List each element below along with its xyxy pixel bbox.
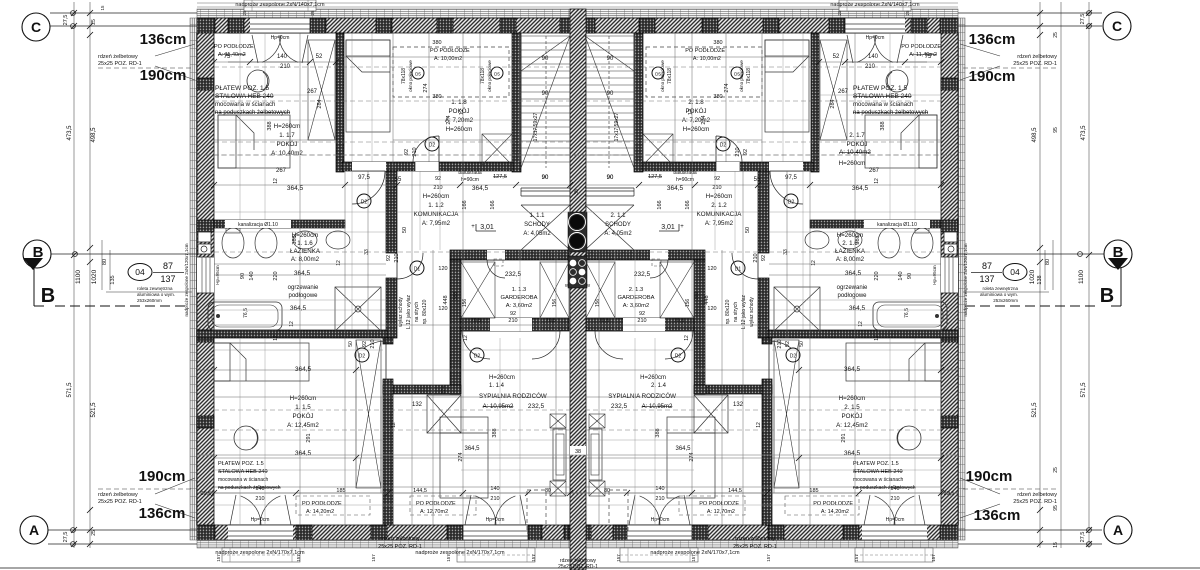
window bottom opening: [463, 525, 528, 540]
svg-text:1. 1.4: 1. 1.4: [489, 383, 505, 389]
section mark B left: [23, 240, 51, 268]
stair void cross left: [521, 205, 570, 250]
svg-text:ogrzewanie: ogrzewanie: [837, 285, 868, 291]
bed bottom-left room: [214, 343, 309, 381]
svg-text:70,5: 70,5: [471, 318, 482, 324]
svg-text:90: 90: [607, 175, 614, 181]
svg-text:364,5: 364,5: [845, 270, 862, 277]
wall H below top rooms (right): [642, 162, 813, 171]
stairs left flight treads: [521, 36, 570, 168]
svg-text:92: 92: [362, 341, 368, 347]
svg-text:55: 55: [395, 177, 402, 183]
svg-text:80: 80: [102, 259, 108, 265]
dashed box PO PODLODZE bottom-left: [296, 496, 370, 515]
svg-text:3,01: 3,01: [480, 224, 494, 231]
svg-text:D2: D2: [720, 143, 727, 149]
svg-text:PŁATEW POZ. 1.5: PŁATEW POZ. 1.5: [215, 85, 269, 92]
svg-text:na strych: na strych: [733, 302, 739, 323]
wall H garderoba top: [450, 250, 569, 260]
svg-text:PO PODŁODZE: PO PODŁODZE: [901, 44, 941, 50]
wall H bathroom bottom (right): [768, 330, 958, 338]
svg-text:157: 157: [691, 554, 696, 562]
svg-text:166: 166: [685, 200, 691, 209]
extra light guide lines vertical: [239, 33, 241, 220]
svg-text:38: 38: [575, 449, 581, 455]
svg-text:274: 274: [423, 83, 429, 92]
svg-text:157: 157: [854, 554, 859, 562]
svg-text:70,5: 70,5: [674, 318, 685, 324]
pipe boxes on right wall bathroom: [944, 232, 957, 242]
svg-text:12: 12: [688, 109, 694, 115]
window top-right opening: [845, 18, 905, 33]
svg-text:92: 92: [404, 149, 410, 155]
column in left wall: [197, 416, 214, 428]
svg-text:A: 3,60m2: A: 3,60m2: [506, 303, 532, 309]
central party wall: [570, 9, 586, 570]
svg-text:aluminiowa o wym.: aluminiowa o wym.: [137, 292, 175, 297]
svg-text:D2: D2: [429, 143, 436, 149]
svg-text:75: 75: [925, 54, 932, 60]
toilet right bathroom: [911, 228, 933, 258]
svg-text:521,5: 521,5: [1032, 402, 1038, 418]
svg-text:210: 210: [637, 318, 646, 324]
stair void cross right: [585, 205, 634, 250]
wall V komunikacja/lazienka lower: [386, 278, 397, 338]
bathtub right: [873, 302, 947, 330]
svg-text:364,5: 364,5: [849, 305, 866, 312]
door arc sypialnia left b: [532, 331, 560, 359]
svg-text:ŁAZIENKA: ŁAZIENKA: [290, 248, 321, 255]
svg-text:127,5: 127,5: [648, 174, 662, 180]
svg-text:rdzeń żelbetowy: rdzeń żelbetowy: [735, 536, 775, 542]
svg-text:274: 274: [441, 386, 447, 395]
svg-text:A: 3,60m2: A: 3,60m2: [623, 303, 649, 309]
door gap garderoba: [487, 250, 505, 260]
svg-text:364,5: 364,5: [852, 185, 869, 192]
svg-text:190cm: 190cm: [139, 468, 186, 485]
svg-text:SCHODY: SCHODY: [524, 222, 550, 228]
svg-text:78x118: 78x118: [746, 68, 752, 84]
svg-text:12: 12: [336, 260, 342, 266]
svg-text:rdzeń żelbetowy: rdzeń żelbetowy: [98, 54, 138, 60]
svg-text:1020: 1020: [91, 269, 98, 284]
svg-text:220: 220: [273, 271, 279, 280]
svg-text:2. 1.8: 2. 1.8: [688, 99, 704, 106]
vent circles cluster: [570, 260, 577, 267]
svg-text:210: 210: [508, 318, 517, 324]
door D2 circle komunikacja left: [357, 194, 371, 208]
svg-text:Hp=0cm: Hp=0cm: [251, 517, 270, 523]
svg-text:87: 87: [163, 261, 173, 271]
chimney flue black circles: [570, 215, 584, 229]
svg-text:90: 90: [607, 56, 614, 62]
svg-text:364,5: 364,5: [675, 446, 691, 452]
svg-text:120: 120: [438, 266, 447, 272]
svg-text:12: 12: [289, 321, 295, 327]
svg-text:190cm: 190cm: [969, 68, 1016, 85]
heating detail circle left: [234, 426, 258, 450]
grid bubble C left: [22, 13, 50, 41]
wardrobe closet top-left: [308, 40, 335, 140]
svg-text:podłogowe: podłogowe: [837, 293, 867, 299]
svg-text:232,5: 232,5: [611, 403, 628, 410]
column in bottom wall (right): [692, 525, 708, 540]
svg-text:132: 132: [733, 402, 744, 408]
bed bottom-left room (right): [846, 343, 941, 381]
svg-text:140: 140: [868, 54, 879, 60]
svg-text:PO PODŁODZE: PO PODŁODZE: [813, 501, 853, 507]
door gap garderoba-sypialnia: [490, 318, 532, 331]
svg-text:15: 15: [100, 5, 105, 11]
svg-text:380: 380: [432, 94, 441, 100]
svg-text:h=90cm: h=90cm: [676, 177, 694, 183]
svg-text:138: 138: [1037, 275, 1043, 284]
column in right wall: [941, 78, 958, 90]
svg-text:nadproże zespolone 2xN/120x7,1: nadproże zespolone 2xN/120x7,1cm: [963, 243, 968, 316]
window arcs bottom right half: [640, 496, 660, 525]
section mark B right: [1104, 240, 1132, 268]
svg-text:C: C: [1112, 18, 1122, 34]
wall V garderoba-sypialnia left: [450, 260, 461, 394]
svg-text:50: 50: [402, 227, 408, 233]
pipe boxes on left wall bathroom: [198, 232, 211, 242]
svg-text:210: 210: [712, 185, 721, 191]
window bottom opening: [228, 525, 293, 540]
column in bottom wall: [564, 525, 586, 540]
svg-text:PO PODŁODZE: PO PODŁODZE: [416, 501, 456, 507]
wall H niche bottom (right): [694, 385, 772, 394]
svg-text:364,5: 364,5: [290, 305, 307, 312]
svg-text:90: 90: [542, 175, 549, 181]
wall V niche left stub: [383, 338, 393, 344]
svg-text:120: 120: [438, 306, 447, 312]
svg-text:A: 4,05m2: A: 4,05m2: [604, 231, 632, 237]
svg-text:157: 157: [931, 554, 936, 562]
svg-text:12: 12: [811, 260, 817, 266]
column in top wall: [500, 18, 516, 33]
svg-text:132: 132: [412, 402, 423, 408]
svg-text:25: 25: [1053, 467, 1059, 473]
heating circle top-right room: [886, 70, 908, 92]
svg-text:balustrada: balustrada: [673, 170, 697, 176]
door arc pokoj115 right: [769, 341, 791, 348]
svg-text:H=260cm: H=260cm: [640, 375, 666, 381]
window top-left opening: [250, 18, 310, 33]
svg-text:210: 210: [433, 185, 442, 191]
svg-text:1. 1.3: 1. 1.3: [512, 287, 527, 293]
svg-text:92: 92: [785, 341, 791, 347]
svg-text:274: 274: [706, 386, 712, 395]
svg-text:A: A: [1113, 522, 1123, 538]
svg-text:na poduszkach żelbetowych: na poduszkach żelbetowych: [853, 485, 916, 491]
wall V komunikacja/lazienka: [386, 171, 397, 253]
door D1 circle closet right: [731, 261, 745, 275]
svg-text:364,5: 364,5: [844, 450, 861, 457]
svg-text:95: 95: [1053, 127, 1059, 133]
svg-text:15: 15: [1053, 542, 1059, 548]
svg-text:364,5: 364,5: [287, 185, 304, 192]
roller shutter box bottom-left window: [222, 548, 300, 562]
svg-text:ogrzewanie: ogrzewanie: [288, 285, 319, 291]
svg-text:25: 25: [1053, 32, 1059, 38]
column in right wall: [941, 416, 958, 428]
grid bubble C right: [1103, 12, 1131, 40]
column in left wall: [197, 78, 214, 90]
svg-text:274: 274: [724, 83, 730, 92]
svg-text:rdzeń żelbetowy: rdzeń żelbetowy: [1017, 54, 1057, 60]
svg-text:kanalizacja Ø1.10: kanalizacja Ø1.10: [238, 222, 278, 228]
window arcs top-right: [857, 35, 876, 62]
svg-text:380: 380: [713, 40, 722, 46]
svg-text:76,5: 76,5: [243, 308, 249, 318]
svg-text:364,5: 364,5: [295, 450, 312, 457]
column in bottom wall: [528, 525, 542, 540]
svg-text:h=90cm: h=90cm: [461, 177, 479, 183]
svg-text:okno połaciowe: okno połaciowe: [660, 60, 665, 92]
door arc sypialnia right a: [665, 331, 693, 359]
svg-text:78x118: 78x118: [401, 68, 407, 84]
door D2 circle sypialnia left: [470, 348, 484, 362]
extra light guide lines horizontal: [214, 94, 336, 96]
svg-text:388: 388: [292, 235, 298, 244]
svg-text:PO PODŁODZE: PO PODŁODZE: [214, 44, 254, 50]
svg-text:50: 50: [348, 341, 354, 347]
svg-text:A: 10,95m2: A: 10,95m2: [642, 404, 673, 410]
svg-text:92: 92: [510, 311, 516, 317]
svg-text:136cm: 136cm: [140, 31, 187, 48]
wall V stairwell (right): [634, 33, 643, 172]
door arc pokoj115 left: [364, 341, 386, 348]
svg-text:157: 157: [371, 554, 376, 562]
svg-text:220: 220: [874, 271, 880, 280]
door gap pokoj 1.1.8: [415, 162, 439, 171]
wall H garderoba bottom: [461, 318, 569, 331]
svg-text:2. 1.3: 2. 1.3: [629, 287, 644, 293]
svg-text:12: 12: [874, 335, 880, 341]
dashed attic floor area left: [393, 47, 509, 97]
window left wall bathroom: [197, 257, 214, 293]
svg-text:2. 1.2: 2. 1.2: [711, 202, 727, 209]
svg-text:A: 4,05m2: A: 4,05m2: [523, 231, 551, 237]
svg-text:498,5: 498,5: [1032, 127, 1038, 143]
tick marks on dim rows: [211, 182, 217, 188]
closet X next to stair wall right: [643, 134, 673, 165]
svg-text:2. 1.1: 2. 1.1: [610, 213, 626, 219]
wall V komunikacja/lazienka (right): [758, 171, 769, 253]
wall outer bottom insulation band: [197, 540, 958, 548]
door gap komunikacja top: [352, 162, 386, 171]
svg-text:156: 156: [685, 299, 691, 308]
svg-text:balustrada: balustrada: [458, 170, 482, 176]
balustrade right: [585, 187, 634, 189]
grid axis line C right: [958, 12, 1102, 14]
svg-text:np. 80x120: np. 80x120: [422, 299, 428, 324]
wall V stairwell: [512, 33, 521, 172]
svg-text:50: 50: [745, 227, 751, 233]
svg-text:78x118: 78x118: [480, 68, 486, 84]
svg-text:210: 210: [255, 496, 264, 502]
svg-text:448: 448: [704, 295, 710, 304]
svg-text:25x25 POZ. RD-1: 25x25 POZ. RD-1: [378, 544, 422, 550]
svg-text:2. 1.7: 2. 1.7: [849, 132, 865, 139]
svg-text:PO PODŁODZE: PO PODŁODZE: [699, 501, 739, 507]
svg-text:Hp=0cm: Hp=0cm: [886, 517, 905, 523]
svg-text:52: 52: [833, 54, 840, 60]
column in top wall (right): [829, 18, 845, 33]
svg-text:25: 25: [310, 10, 315, 16]
svg-text:388: 388: [267, 121, 273, 130]
washbasin right bathroom: [838, 231, 862, 249]
label roleta zewnetrzna right: [963, 291, 1049, 293]
roller shutter box bottom mid-right window: [620, 548, 698, 562]
svg-text:na poduszkach żelbetowych: na poduszkach żelbetowych: [215, 110, 290, 116]
svg-text:mocowana w ścianach: mocowana w ścianach: [218, 477, 269, 483]
svg-text:podłogowe: podłogowe: [288, 293, 318, 299]
door gap komunikacja top (right): [769, 162, 803, 171]
wall H garderoba top (right): [586, 250, 705, 260]
bed sypialnia right: [667, 417, 715, 498]
svg-text:D5: D5: [415, 72, 421, 77]
column in right wall: [941, 330, 958, 342]
svg-text:571,5: 571,5: [67, 382, 73, 398]
svg-text:A: 14,20m2: A: 14,20m2: [821, 509, 849, 515]
wall outer right insulation: [958, 18, 965, 540]
guide lines horizontal: [214, 184, 570, 186]
door arc closet right: [732, 253, 758, 279]
svg-text:A: 7,95m2: A: 7,95m2: [422, 220, 451, 227]
left small chain 80 135: [101, 240, 103, 290]
svg-text:25x25 POZ. RD-1: 25x25 POZ. RD-1: [733, 544, 777, 550]
sypialnia wardrobe column right: [589, 414, 605, 428]
wall H bathroom top: [214, 220, 345, 228]
svg-text:55: 55: [754, 177, 761, 183]
column in top wall: [228, 18, 244, 33]
door D2 circle pokoj118 left: [425, 137, 439, 151]
svg-text:D2: D2: [359, 354, 366, 360]
svg-text:210: 210: [753, 253, 759, 262]
bed top-left room (right): [865, 115, 937, 168]
svg-text:210: 210: [370, 339, 376, 348]
svg-text:PŁATEW POZ. 1.5: PŁATEW POZ. 1.5: [853, 461, 899, 467]
window arcs bottom right half: [875, 496, 895, 525]
svg-text:291: 291: [306, 433, 312, 442]
svg-text:A: 10,95m2: A: 10,95m2: [483, 404, 514, 410]
door D2 circle bathroom right: [786, 348, 800, 362]
svg-text:39,5: 39,5: [944, 491, 955, 497]
column in bottom wall (right): [613, 525, 627, 540]
svg-text:12: 12: [463, 335, 469, 341]
column in bottom wall (right): [768, 525, 784, 540]
svg-text:25: 25: [91, 530, 97, 536]
svg-text:12: 12: [756, 422, 762, 428]
svg-text:okno połaciowe: okno połaciowe: [739, 60, 744, 92]
column in right wall: [941, 220, 958, 232]
dashed attic floor area right: [646, 47, 762, 97]
svg-text:137: 137: [160, 274, 175, 284]
svg-text:okno połaciowe: okno połaciowe: [487, 60, 492, 92]
shaft X-box left: [427, 395, 461, 433]
svg-text:232,5: 232,5: [505, 271, 522, 278]
svg-text:76,5: 76,5: [904, 308, 910, 318]
svg-text:Hp=0cm: Hp=0cm: [486, 517, 505, 523]
svg-text:127,5: 127,5: [493, 174, 507, 180]
column in top wall: [197, 18, 215, 33]
garderoba wardrobe X left inner: [461, 262, 495, 318]
wall H niche bottom: [383, 385, 461, 394]
svg-text:GARDEROBA: GARDEROBA: [617, 295, 654, 301]
roof window D5 circle left b: [491, 67, 503, 79]
grid bubble A left: [20, 516, 48, 544]
svg-text:27,5: 27,5: [1080, 14, 1086, 25]
svg-text:+: +: [471, 224, 475, 230]
svg-text:210: 210: [655, 496, 664, 502]
svg-text:90: 90: [907, 273, 913, 279]
svg-text:267: 267: [307, 89, 318, 95]
svg-text:87: 87: [982, 261, 992, 271]
svg-text:364,5: 364,5: [472, 185, 489, 192]
svg-text:210: 210: [777, 339, 783, 348]
bed top-left room: [218, 115, 290, 168]
svg-text:2. 1.4: 2. 1.4: [651, 383, 667, 389]
svg-text:571,5: 571,5: [1081, 382, 1087, 398]
svg-text:1. 1.8: 1. 1.8: [451, 99, 467, 106]
marker 04 87 137 right: [1003, 264, 1027, 281]
svg-text:ŁAZIENKA: ŁAZIENKA: [835, 248, 866, 255]
svg-text:156: 156: [552, 299, 558, 308]
svg-text:A: 14,20m2: A: 14,20m2: [306, 509, 334, 515]
wall V bedroom1.1.5 right: [383, 379, 393, 525]
svg-text:364,5: 364,5: [667, 185, 684, 192]
svg-text:17x17,59x27: 17x17,59x27: [533, 112, 539, 141]
svg-text:GARDEROBA: GARDEROBA: [500, 295, 537, 301]
svg-text:27,5: 27,5: [63, 15, 69, 26]
svg-text:232,5: 232,5: [528, 403, 545, 410]
grid axis line A right: [958, 529, 1102, 531]
svg-text:A: 8,00m2: A: 8,00m2: [836, 256, 865, 263]
svg-text:157: 157: [766, 554, 771, 562]
column in top wall: [376, 18, 392, 33]
svg-text:253x260mm: 253x260mm: [993, 298, 1018, 303]
wall V komunikacja/lazienka lower (right): [758, 278, 769, 338]
door gap pokoj 1.1.8 (right): [716, 162, 740, 171]
svg-text:291: 291: [841, 433, 847, 442]
column in bottom wall: [296, 525, 312, 540]
svg-text:157: 157: [616, 554, 621, 562]
right small chain 80 135: [1052, 240, 1054, 290]
door arc sypialnia right b: [595, 331, 623, 359]
wall H garderoba bottom (right): [586, 318, 694, 331]
svg-text:166: 166: [490, 200, 496, 209]
svg-text:388: 388: [855, 235, 861, 244]
svg-text:12: 12: [684, 335, 690, 341]
svg-text:+: +: [680, 224, 684, 230]
svg-text:473,5: 473,5: [67, 125, 73, 141]
svg-text:1. 1.1: 1. 1.1: [529, 213, 545, 219]
wall outer left insulation: [190, 18, 197, 540]
wall V pokoj1.1.7/1.1.8: [336, 33, 344, 172]
door arc pokoj 1.1.8 right: [716, 136, 742, 162]
svg-text:A: 11,40m2: A: 11,40m2: [218, 52, 246, 58]
dim 38 center bottom: [570, 446, 586, 455]
svg-text:136cm: 136cm: [974, 507, 1021, 524]
svg-text:3,01: 3,01: [661, 224, 675, 231]
heating detail circle right: [897, 426, 921, 450]
column in top wall (right): [702, 18, 718, 33]
roller shutter box bottom-right window: [855, 548, 933, 562]
svg-text:mocowana w ścianach: mocowana w ścianach: [215, 102, 275, 108]
chimney dark block: [568, 212, 587, 252]
roller shutter box bottom mid-left window: [457, 548, 535, 562]
